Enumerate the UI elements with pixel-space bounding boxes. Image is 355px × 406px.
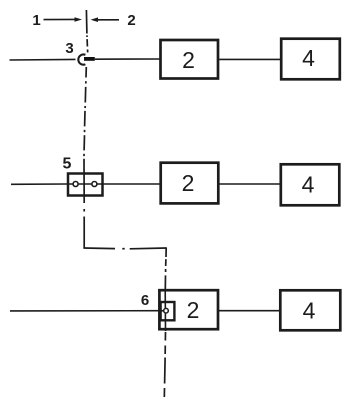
wire row1 between boxes	[219, 58, 280, 60]
box 4 row 1	[281, 39, 340, 80]
centerline horizontal jog	[83, 247, 166, 250]
centerline through component 6 (solid)	[164, 289, 166, 331]
svg-text:6: 6	[141, 292, 149, 309]
svg-text:4: 4	[302, 45, 315, 71]
centerline dash-dot upper segment	[86, 35, 89, 52]
box 2 row 2	[161, 163, 219, 204]
component 6 port circle	[164, 308, 169, 313]
centerline below component 5	[83, 209, 85, 248]
wire row1 left	[10, 58, 76, 61]
box 4 row 3	[280, 290, 340, 330]
wire through component 5	[67, 183, 104, 185]
component 5 body	[68, 174, 103, 196]
centerline tick at dimension	[85, 10, 88, 34]
wire row3 between boxes	[218, 310, 279, 312]
box 2 row 1	[161, 40, 219, 79]
svg-text:2: 2	[182, 170, 195, 196]
component 3 thick bar	[84, 57, 95, 61]
component 6 body	[161, 302, 175, 320]
component 5 port circle right	[92, 182, 97, 187]
dimension arrow right (points left)	[91, 17, 120, 22]
svg-text:3: 3	[65, 40, 73, 57]
centerline through component 5 (solid)	[83, 159, 85, 203]
svg-text:2: 2	[127, 12, 135, 29]
wire row3 left	[10, 310, 163, 312]
wire into component 6	[160, 310, 165, 312]
wire row2 to box 2	[104, 183, 160, 185]
centerline vertical to component 6	[164, 248, 167, 290]
component 5 port circle left	[73, 182, 78, 187]
component 3 arc (nozzle)	[78, 55, 85, 65]
centerline between component 3 and component 5	[84, 67, 86, 156]
centerline bottom tail	[164, 332, 165, 398]
wire row1 to box 2	[95, 58, 160, 60]
svg-text:5: 5	[63, 156, 72, 173]
svg-text:2: 2	[187, 297, 200, 323]
box 2 row 3	[159, 290, 218, 329]
wire row2 between boxes	[220, 183, 280, 185]
box 4 row 2	[281, 164, 340, 205]
dimension arrow left (points right)	[44, 17, 83, 22]
wire row2 left	[11, 183, 67, 185]
svg-text:4: 4	[302, 172, 315, 198]
svg-text:1: 1	[32, 12, 40, 29]
svg-text:2: 2	[182, 47, 195, 73]
svg-text:4: 4	[303, 298, 316, 324]
